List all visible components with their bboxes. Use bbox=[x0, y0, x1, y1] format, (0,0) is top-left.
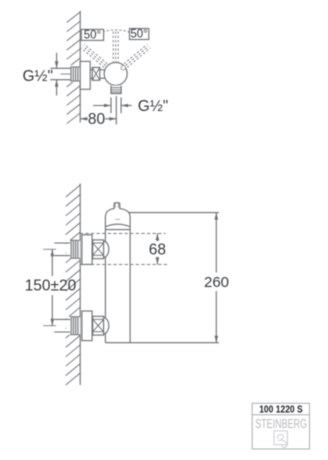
svg-text:50°: 50° bbox=[130, 29, 147, 41]
dimension 68 arrows bbox=[156, 233, 160, 264]
label 150±20 bbox=[25, 278, 77, 295]
label 68 bbox=[149, 241, 166, 258]
spray fan right 50deg (dashed) bbox=[124, 44, 150, 67]
cartridge cap shading bbox=[115, 204, 118, 208]
label STEINBERG bbox=[255, 416, 307, 431]
pipe clearance in wall (plan) bbox=[66, 65, 80, 82]
dimension 80 arrows bbox=[80, 117, 116, 121]
shower outlet stub G1/2 (plan) bbox=[111, 86, 121, 94]
spray fan centre (dashed) bbox=[113, 32, 118, 62]
svg-text:G½": G½" bbox=[23, 68, 54, 85]
dimension G1/2 right arrows bbox=[93, 104, 132, 108]
label 80 bbox=[88, 111, 106, 128]
body top extension line bbox=[129, 212, 219, 214]
connection boss (bottom inlet) bbox=[104, 318, 109, 334]
brand mark on body bbox=[115, 218, 120, 220]
body ring line bbox=[105, 229, 130, 231]
supply centre line (bottom inlet) bbox=[43, 325, 56, 327]
supply pipe (bottom inlet) bbox=[54, 319, 70, 332]
svg-text:50°: 50° bbox=[84, 30, 101, 42]
connector stub lines (plan) bbox=[90, 70, 104, 78]
mixer body circle (plan) bbox=[104, 62, 127, 85]
svg-text:80: 80 bbox=[88, 111, 106, 128]
supply centre line (top inlet) bbox=[43, 248, 56, 250]
body bottom edge + extension line bbox=[105, 342, 218, 344]
reference line dashed (top) bbox=[80, 232, 166, 234]
label 100 1220 S bbox=[259, 404, 303, 415]
knob detail circle (plan) bbox=[121, 66, 125, 70]
swivel range arc (dashed) bbox=[103, 30, 131, 33]
wall section hatching (front view) bbox=[66, 185, 81, 385]
label box 50deg left bbox=[81, 29, 103, 41]
reference line dashed (bottom) bbox=[80, 263, 168, 265]
wall section hatching (plan view) bbox=[67, 12, 81, 124]
svg-text:150±20: 150±20 bbox=[25, 278, 77, 295]
pipe thread (top inlet) bbox=[70, 240, 80, 258]
label G1/2 (left) bbox=[23, 68, 54, 85]
dimension G1/2 left arrows bbox=[55, 53, 59, 96]
union nut (bottom inlet) bbox=[93, 316, 104, 335]
dimension 260 line bbox=[215, 213, 219, 343]
label G1/2 (right) bbox=[138, 98, 169, 115]
svg-text:G½": G½" bbox=[138, 98, 169, 115]
supply pipe (top inlet) bbox=[54, 243, 70, 256]
svg-text:260: 260 bbox=[204, 274, 229, 291]
svg-text:STEINBERG: STEINBERG bbox=[255, 416, 307, 431]
union nut (plan) bbox=[92, 67, 100, 80]
escutcheon plate (top inlet) bbox=[82, 235, 92, 265]
svg-text:68: 68 bbox=[149, 241, 166, 258]
body joint arc bbox=[105, 224, 130, 227]
wall face line (plan view) bbox=[79, 11, 81, 123]
escutcheon plate (bottom inlet) bbox=[82, 311, 92, 341]
mixer body outline (front view) bbox=[105, 203, 130, 343]
pipe clearances in wall (front) bbox=[66, 240, 80, 335]
escutcheon plate (plan) bbox=[80, 61, 90, 89]
pipe thread (bottom inlet) bbox=[70, 317, 80, 335]
connection boss (top inlet) bbox=[104, 241, 109, 257]
label box 50deg right bbox=[130, 29, 149, 41]
supply pipe G1/2 (plan) bbox=[50, 68, 71, 79]
svg-text:100 1220 S: 100 1220 S bbox=[259, 404, 303, 415]
product label box bbox=[252, 403, 309, 449]
label 260 bbox=[204, 274, 229, 291]
dimension 150±20 line bbox=[51, 249, 55, 325]
pipe thread (plan) bbox=[70, 67, 80, 81]
wall face line (front view) bbox=[79, 184, 81, 386]
union nut (top inlet) bbox=[93, 240, 104, 259]
Steinberg logo bbox=[274, 431, 287, 448]
extension lines outlet (plan) bbox=[111, 96, 121, 125]
spray fan left 50deg (dashed) bbox=[81, 44, 107, 67]
